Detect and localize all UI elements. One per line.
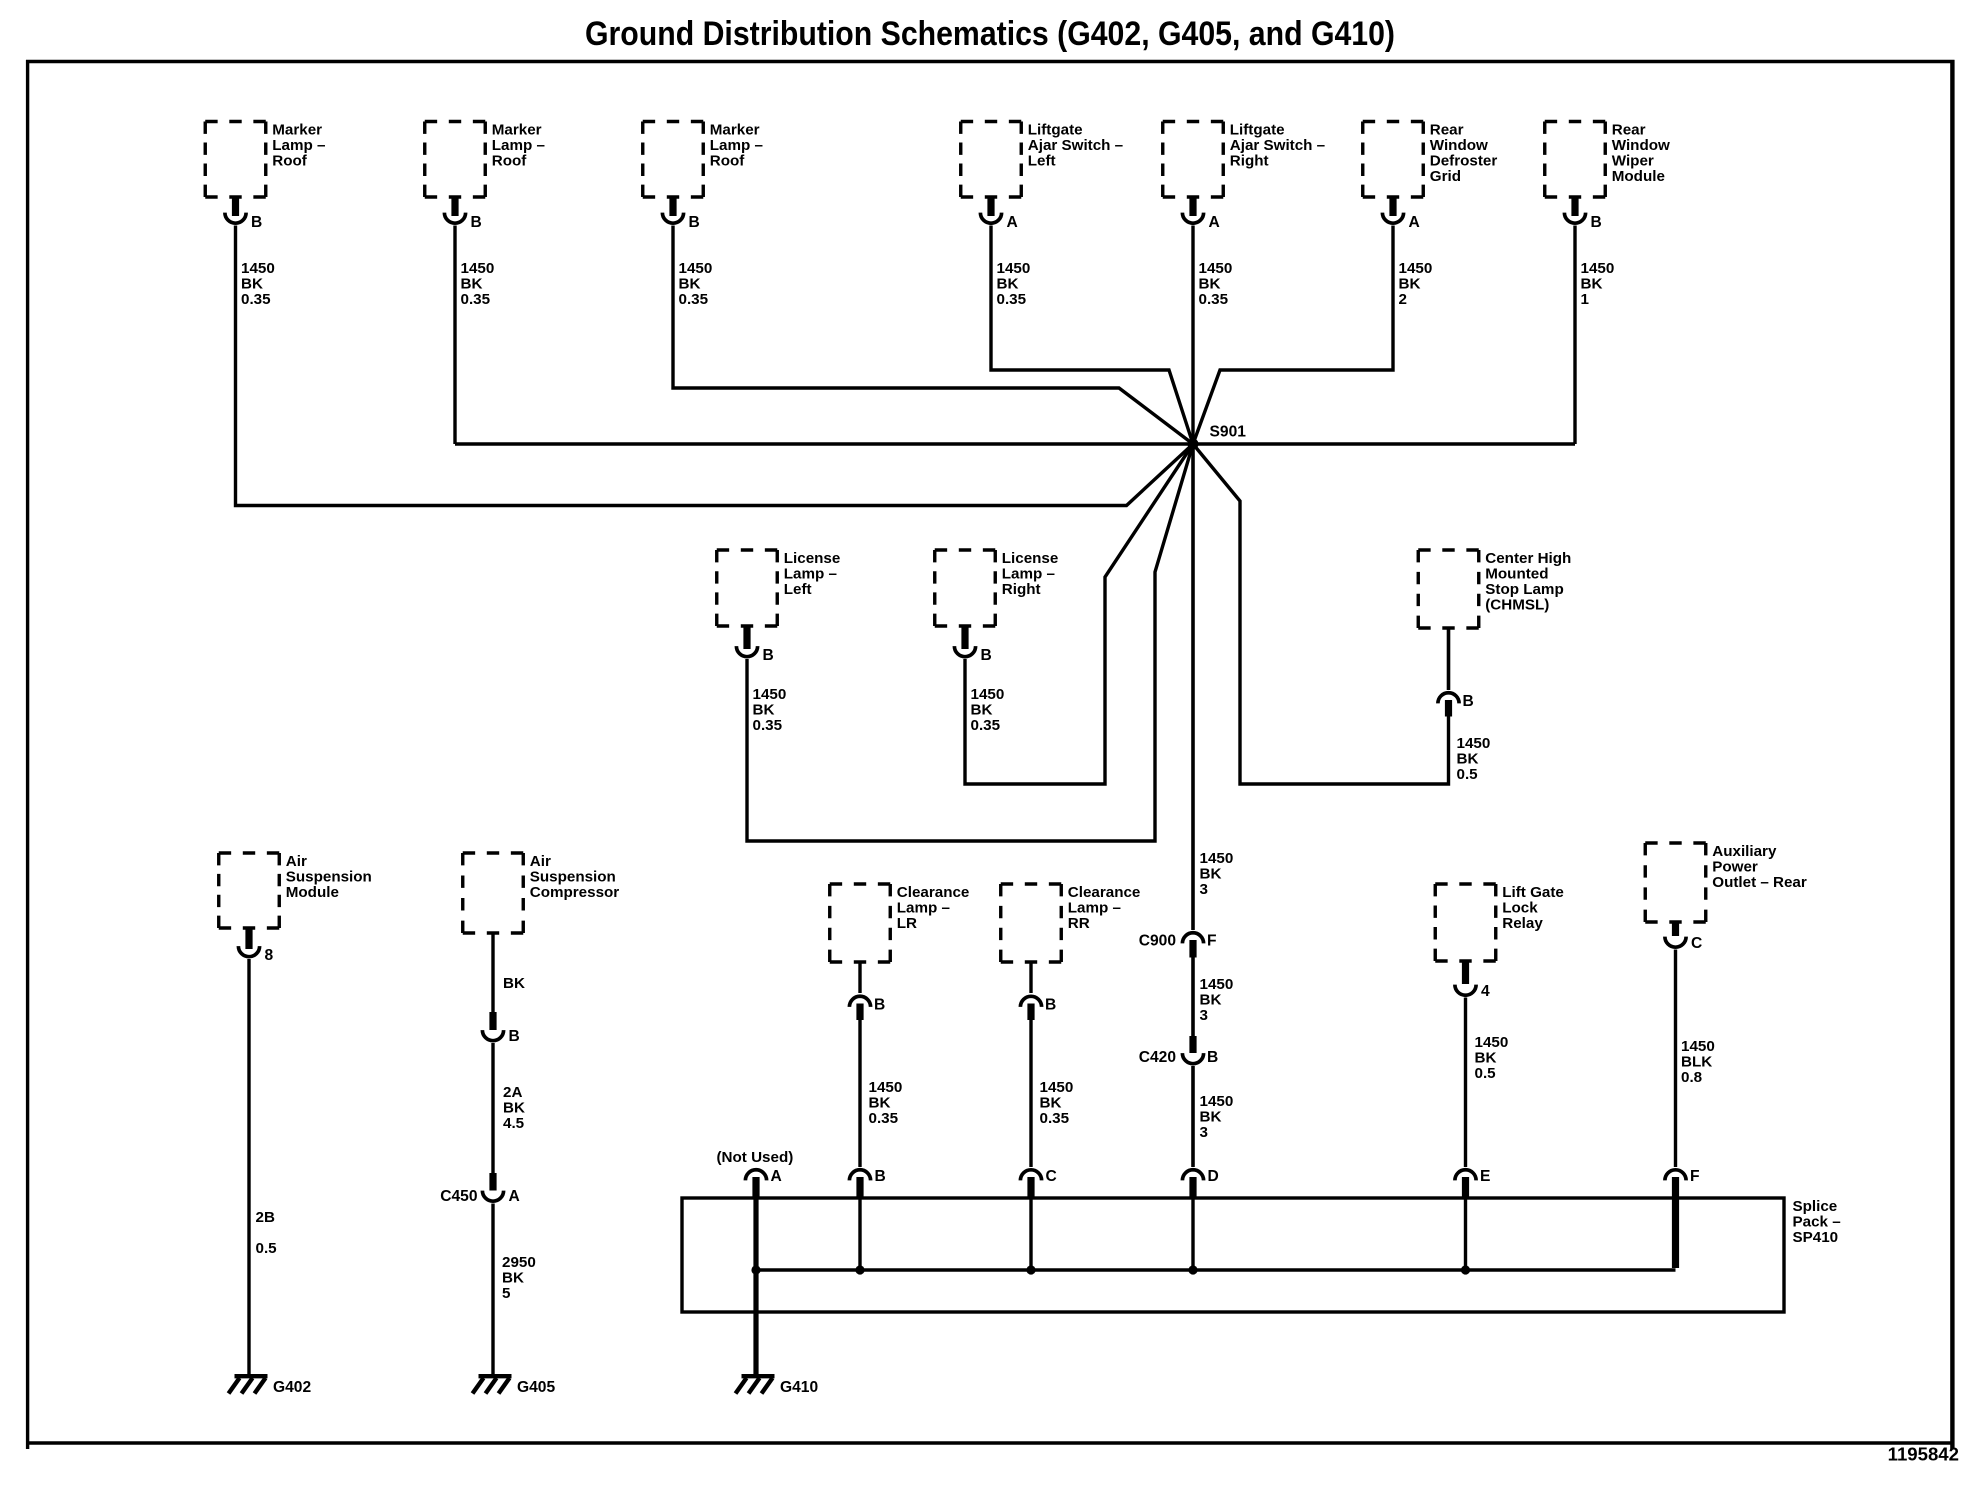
svg-text:Lamp –: Lamp – — [1068, 900, 1121, 917]
svg-text:Defroster: Defroster — [1430, 153, 1498, 170]
svg-text:0.35: 0.35 — [241, 291, 271, 308]
svg-text:B: B — [875, 1168, 886, 1185]
title — [585, 15, 1395, 53]
svg-text:Lock: Lock — [1502, 900, 1538, 917]
splice pack pin C — [1020, 1168, 1056, 1275]
svg-text:Module: Module — [286, 884, 339, 901]
svg-text:0.35: 0.35 — [679, 291, 709, 308]
svg-text:Liftgate: Liftgate — [1230, 122, 1285, 139]
svg-text:Lamp –: Lamp – — [710, 137, 763, 154]
component marker lamp roof 1 — [205, 122, 325, 198]
component license lamp left — [717, 550, 841, 626]
ground G410 — [736, 1376, 819, 1396]
svg-text:B: B — [763, 647, 774, 664]
connector pin A of rear window defroster grid — [1382, 196, 1419, 231]
svg-text:Lift Gate: Lift Gate — [1502, 884, 1564, 901]
svg-text:1450: 1450 — [1581, 260, 1615, 277]
wire label 1450 BK 0.5 (CHMSL) — [1457, 735, 1491, 783]
wire marker lamp 1 to S901 — [236, 226, 1194, 506]
svg-text:Ground Distribution Schematics: Ground Distribution Schematics (G402, G4… — [585, 15, 1395, 53]
svg-text:Window: Window — [1430, 137, 1488, 154]
connector pin 4 of lift gate lock relay — [1455, 960, 1490, 1000]
svg-text:Left: Left — [1028, 153, 1056, 170]
svg-text:Ajar Switch –: Ajar Switch – — [1230, 137, 1325, 154]
svg-text:Roof: Roof — [710, 153, 746, 170]
connector pin B of marker lamp roof 1 — [225, 196, 262, 231]
figure number 1195842 — [1888, 1444, 1959, 1465]
wire label 1450 BK 3 (below C420) — [1200, 1093, 1234, 1141]
svg-text:Compressor: Compressor — [530, 884, 620, 901]
svg-text:Lamp –: Lamp – — [784, 566, 837, 583]
svg-text:0.5: 0.5 — [1475, 1065, 1497, 1082]
wire label 1450 BK 0.35 (clearance LR) — [869, 1079, 903, 1127]
connector pin C of auxiliary power outlet — [1665, 921, 1702, 952]
svg-text:0.35: 0.35 — [1040, 1110, 1070, 1127]
svg-text:License: License — [1002, 550, 1059, 567]
wire label 1450 BK 0.35 (license left) — [753, 686, 787, 734]
wire label BK — [503, 975, 525, 992]
wire label 2950 BK 5 — [502, 1254, 536, 1302]
splice pack pin F — [1665, 1168, 1700, 1268]
svg-text:Marker: Marker — [710, 122, 760, 139]
wire rear window defroster to S901 — [1193, 226, 1393, 445]
svg-text:1450: 1450 — [1200, 1093, 1234, 1110]
svg-text:0.5: 0.5 — [256, 1240, 278, 1257]
svg-text:4.5: 4.5 — [503, 1115, 525, 1132]
component marker lamp roof 3 — [643, 122, 763, 198]
svg-text:Clearance: Clearance — [897, 884, 970, 901]
svg-text:G402: G402 — [273, 1379, 311, 1396]
svg-text:1450: 1450 — [1040, 1079, 1074, 1096]
svg-text:2: 2 — [1399, 291, 1407, 308]
svg-text:B: B — [1463, 693, 1474, 710]
svg-text:Outlet – Rear: Outlet – Rear — [1712, 874, 1807, 891]
connector pin B of marker lamp roof 3 — [662, 196, 699, 231]
svg-text:C: C — [1691, 935, 1702, 952]
wire CHMSL box to connector — [1447, 627, 1451, 690]
wire label 1450 BK 1 — [1581, 260, 1615, 308]
wire label 1450 BK 2 — [1399, 260, 1433, 308]
svg-text:1450: 1450 — [1399, 260, 1433, 277]
svg-text:Right: Right — [1002, 581, 1041, 598]
svg-text:Relay: Relay — [1502, 915, 1543, 932]
svg-text:BK: BK — [1581, 276, 1603, 293]
wire splice pack A to G410 — [753, 1177, 758, 1374]
svg-text:1450: 1450 — [971, 686, 1005, 703]
svg-text:Splice: Splice — [1793, 1198, 1838, 1215]
svg-text:Lamp –: Lamp – — [492, 137, 545, 154]
wire compressor to pin B — [491, 932, 494, 1013]
connector pin B of CHMSL — [1438, 693, 1474, 717]
svg-text:0.5: 0.5 — [1457, 766, 1479, 783]
wire C900 to C420 — [1191, 956, 1195, 1037]
svg-text:BK: BK — [1200, 992, 1222, 1009]
svg-text:5: 5 — [502, 1285, 511, 1302]
svg-text:C450: C450 — [440, 1188, 478, 1205]
svg-text:B: B — [1591, 214, 1602, 231]
splice pack pin B — [849, 1168, 885, 1275]
svg-text:BK: BK — [1040, 1095, 1062, 1112]
wire label 1450 BK 0.35 — [1199, 260, 1233, 308]
svg-text:1450: 1450 — [1200, 850, 1234, 867]
connector pin B of clearance lamp RR — [1020, 996, 1056, 1020]
component center high mounted stop lamp CHMSL — [1418, 550, 1571, 628]
wire liftgate ajar right to S901 — [1191, 226, 1194, 445]
splice pack pin E — [1455, 1168, 1491, 1275]
component marker lamp roof 2 — [425, 122, 545, 198]
svg-text:3: 3 — [1200, 1007, 1208, 1024]
wire clearance LR box to connector — [858, 961, 861, 993]
wire license lamp left to S901 — [747, 444, 1193, 841]
splice pack SP410 box — [682, 1198, 1841, 1312]
svg-text:Air: Air — [286, 853, 307, 870]
svg-text:LR: LR — [897, 915, 917, 932]
svg-text:4: 4 — [1481, 983, 1490, 1000]
wire marker lamp 3 to S901 — [673, 226, 1193, 445]
svg-text:RR: RR — [1068, 915, 1090, 932]
ground G402 — [229, 1376, 312, 1396]
wire label 1450 BK 0.5 (lift gate lock relay) — [1475, 1034, 1509, 1082]
component liftgate ajar switch left — [961, 122, 1123, 198]
svg-text:1450: 1450 — [461, 260, 495, 277]
svg-text:License: License — [784, 550, 841, 567]
component clearance lamp RR — [1001, 884, 1141, 962]
svg-text:F: F — [1690, 1168, 1700, 1185]
svg-text:C900: C900 — [1139, 933, 1177, 950]
svg-text:BK: BK — [1457, 751, 1479, 768]
svg-text:3: 3 — [1200, 1124, 1208, 1141]
component air suspension compressor — [463, 853, 620, 933]
svg-text:2A: 2A — [503, 1084, 522, 1101]
svg-text:Ajar Switch –: Ajar Switch – — [1028, 137, 1123, 154]
svg-text:S901: S901 — [1210, 424, 1247, 441]
svg-text:B: B — [1045, 997, 1056, 1014]
wire label 1450 BK 3 (above C900) — [1200, 850, 1234, 898]
wire clearance LR to splice pack pin B — [858, 1019, 861, 1167]
svg-text:Auxiliary: Auxiliary — [1712, 843, 1777, 860]
svg-text:A: A — [771, 1168, 782, 1185]
svg-text:Mounted: Mounted — [1485, 566, 1548, 583]
component rear window defroster grid — [1363, 122, 1498, 198]
svg-text:C420: C420 — [1139, 1049, 1177, 1066]
svg-text:B: B — [509, 1028, 520, 1045]
wire label 1450 BK 0.35 — [461, 260, 495, 308]
connector pin 8 of air suspension module — [238, 927, 273, 964]
svg-text:1450: 1450 — [679, 260, 713, 277]
svg-text:B: B — [874, 997, 885, 1014]
svg-text:C: C — [1046, 1168, 1057, 1185]
svg-text:BK: BK — [1200, 1109, 1222, 1126]
svg-text:Window: Window — [1612, 137, 1670, 154]
svg-text:Lamp –: Lamp – — [897, 900, 950, 917]
svg-text:Right: Right — [1230, 153, 1269, 170]
svg-text:BK: BK — [997, 276, 1019, 293]
connector pin B of rear window wiper module — [1564, 196, 1601, 231]
svg-text:8: 8 — [265, 947, 274, 964]
svg-text:1: 1 — [1581, 291, 1590, 308]
wire label 1450 BK 0.35 — [679, 260, 713, 308]
svg-text:Marker: Marker — [272, 122, 322, 139]
svg-text:Suspension: Suspension — [286, 869, 372, 886]
svg-text:1450: 1450 — [1457, 735, 1491, 752]
connector pin B of clearance lamp LR — [849, 996, 885, 1020]
svg-text:E: E — [1480, 1168, 1490, 1185]
svg-text:0.35: 0.35 — [1199, 291, 1229, 308]
svg-text:D: D — [1208, 1168, 1219, 1185]
svg-text:B: B — [981, 647, 992, 664]
svg-text:Pack –: Pack – — [1793, 1214, 1841, 1231]
svg-text:B: B — [689, 214, 700, 231]
wire marker lamp 2 / rear wiper bus to S901 — [455, 226, 1575, 445]
svg-text:BK: BK — [971, 702, 993, 719]
wire license lamp right to S901 — [965, 444, 1193, 784]
svg-text:A: A — [1007, 214, 1018, 231]
component liftgate ajar switch right — [1163, 122, 1325, 198]
wire liftgate ajar left to S901 — [991, 226, 1193, 445]
svg-text:(Not Used): (Not Used) — [717, 1149, 794, 1166]
splice pack pin D — [1182, 1168, 1218, 1275]
wire auxiliary power outlet to splice pack pin F — [1674, 950, 1677, 1168]
svg-text:BK: BK — [1200, 866, 1222, 883]
svg-text:2B: 2B — [256, 1209, 275, 1226]
connector pin A of liftgate ajar switch right — [1182, 196, 1219, 231]
splice pack internal bus — [751, 1265, 1675, 1274]
svg-text:(CHMSL): (CHMSL) — [1485, 597, 1549, 614]
svg-text:BLK: BLK — [1681, 1054, 1712, 1071]
svg-text:Rear: Rear — [1612, 122, 1646, 139]
component license lamp right — [935, 550, 1059, 626]
svg-text:Marker: Marker — [492, 122, 542, 139]
svg-text:Liftgate: Liftgate — [1028, 122, 1083, 139]
svg-text:BK: BK — [503, 975, 525, 992]
wire label 1450 BK 3 (between C900 and C420) — [1200, 976, 1234, 1024]
svg-text:Stop Lamp: Stop Lamp — [1485, 581, 1563, 598]
connector pin B of license lamp right — [954, 625, 991, 664]
svg-text:G405: G405 — [517, 1379, 555, 1396]
svg-text:Clearance: Clearance — [1068, 884, 1141, 901]
svg-text:1450: 1450 — [1199, 260, 1233, 277]
svg-text:2950: 2950 — [502, 1254, 536, 1271]
connector C900 pin F — [1139, 933, 1217, 958]
connector pin B of compressor — [482, 1012, 519, 1045]
svg-text:Roof: Roof — [272, 153, 308, 170]
svg-text:BK: BK — [461, 276, 483, 293]
svg-text:B: B — [251, 214, 262, 231]
wire label 1450 BK 0.35 — [997, 260, 1031, 308]
svg-text:SP410: SP410 — [1793, 1229, 1839, 1246]
component lift gate lock relay — [1435, 884, 1564, 961]
svg-text:BK: BK — [1399, 276, 1421, 293]
svg-text:Lamp –: Lamp – — [272, 137, 325, 154]
wire pin B to C450 — [491, 1043, 494, 1174]
svg-text:0.35: 0.35 — [461, 291, 491, 308]
svg-text:1450: 1450 — [1200, 976, 1234, 993]
svg-text:1195842: 1195842 — [1888, 1444, 1959, 1465]
wire C420 to splice pack pin D — [1191, 1066, 1195, 1167]
component clearance lamp LR — [830, 884, 970, 962]
wire CHMSL to S901 — [1193, 444, 1449, 784]
svg-text:Center High: Center High — [1485, 550, 1571, 567]
svg-text:B: B — [1207, 1049, 1218, 1066]
svg-text:BK: BK — [753, 702, 775, 719]
svg-text:0.35: 0.35 — [869, 1110, 899, 1127]
svg-text:1450: 1450 — [869, 1079, 903, 1096]
connector pin B of license lamp left — [736, 625, 773, 664]
component auxiliary power outlet rear — [1645, 843, 1807, 922]
connector pin B of marker lamp roof 2 — [444, 196, 481, 231]
connector C420 pin B — [1139, 1036, 1219, 1066]
svg-text:0.35: 0.35 — [997, 291, 1027, 308]
wire C450 to G405 — [491, 1204, 494, 1375]
svg-text:0.35: 0.35 — [971, 717, 1001, 734]
wire label 1450 BK 0.35 — [241, 260, 275, 308]
svg-text:1450: 1450 — [241, 260, 275, 277]
svg-text:BK: BK — [503, 1100, 525, 1117]
svg-text:BK: BK — [241, 276, 263, 293]
wire clearance RR box to connector — [1029, 961, 1032, 993]
component rear window wiper module — [1545, 122, 1670, 198]
svg-text:Grid: Grid — [1430, 168, 1461, 185]
svg-text:BK: BK — [869, 1095, 891, 1112]
svg-text:Module: Module — [1612, 168, 1665, 185]
svg-text:1450: 1450 — [753, 686, 787, 703]
svg-text:Power: Power — [1712, 859, 1758, 876]
wire label 2A BK 4.5 — [503, 1084, 525, 1132]
svg-text:BK: BK — [1475, 1050, 1497, 1067]
svg-text:F: F — [1207, 933, 1217, 950]
wire label 1450 BLK 0.8 — [1681, 1038, 1715, 1086]
svg-text:A: A — [1409, 214, 1420, 231]
wire clearance RR to splice pack pin C — [1029, 1019, 1032, 1167]
connector pin A of liftgate ajar switch left — [980, 196, 1017, 231]
svg-text:Suspension: Suspension — [530, 869, 616, 886]
svg-text:Rear: Rear — [1430, 122, 1464, 139]
wire lift gate lock relay to splice pack pin E — [1464, 998, 1467, 1168]
svg-text:Air: Air — [530, 853, 551, 870]
svg-text:A: A — [509, 1188, 520, 1205]
svg-text:Left: Left — [784, 581, 812, 598]
svg-text:BK: BK — [679, 276, 701, 293]
wire label 1450 BK 0.35 (license right) — [971, 686, 1005, 734]
svg-text:B: B — [471, 214, 482, 231]
wire label 2B / 0.5 — [256, 1209, 278, 1257]
wire air suspension module to G402 — [247, 959, 250, 1374]
svg-text:0.8: 0.8 — [1681, 1069, 1702, 1086]
svg-text:Lamp –: Lamp – — [1002, 566, 1055, 583]
svg-text:BK: BK — [502, 1270, 524, 1287]
svg-text:1450: 1450 — [1475, 1034, 1509, 1051]
wire label 1450 BK 0.35 (clearance RR) — [1040, 1079, 1074, 1127]
svg-text:A: A — [1209, 214, 1220, 231]
svg-text:1450: 1450 — [1681, 1038, 1715, 1055]
ground G405 — [473, 1376, 556, 1396]
splice S901 junction — [1188, 424, 1247, 450]
svg-text:G410: G410 — [780, 1379, 818, 1396]
splice pack pin A (not used) — [717, 1149, 794, 1200]
svg-text:0.35: 0.35 — [753, 717, 783, 734]
wire S901 down to C900 — [1191, 444, 1195, 930]
connector C450 pin A — [440, 1173, 520, 1205]
svg-text:BK: BK — [1199, 276, 1221, 293]
svg-text:Wiper: Wiper — [1612, 153, 1654, 170]
svg-text:Roof: Roof — [492, 153, 528, 170]
component air suspension module — [219, 853, 372, 928]
svg-text:3: 3 — [1200, 881, 1208, 898]
svg-text:1450: 1450 — [997, 260, 1031, 277]
